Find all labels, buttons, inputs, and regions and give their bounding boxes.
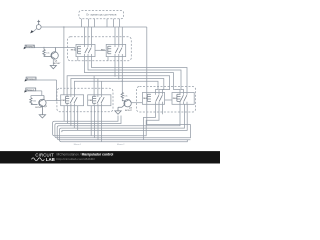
svg-text:LAB: LAB — [46, 157, 55, 162]
svg-text:10k: 10k — [124, 96, 127, 98]
svg-text:Вперед 1: Вперед 1 — [26, 46, 35, 48]
svg-text:От арматуры датчиков: От арматуры датчиков — [86, 13, 117, 17]
svg-text:http://circuitlab.com/c8dbl6r/: http://circuitlab.com/c8dbl6r/ — [57, 157, 96, 161]
svg-text:Метка 2: Метка 2 — [117, 144, 125, 146]
svg-text:Назад 2: Назад 2 — [27, 89, 35, 91]
svg-text:Вперед 2: Вперед 2 — [27, 79, 36, 81]
svg-text:10k: 10k — [33, 101, 36, 103]
svg-text:BC547: BC547 — [125, 110, 132, 112]
svg-text:MChemodanov / Manipulador cont: MChemodanov / Manipulador control — [57, 153, 114, 157]
svg-text:10k: 10k — [46, 53, 49, 55]
svg-text:Метка 1: Метка 1 — [74, 144, 82, 146]
svg-text:BC547: BC547 — [35, 107, 42, 109]
svg-text:BC547: BC547 — [54, 63, 61, 65]
